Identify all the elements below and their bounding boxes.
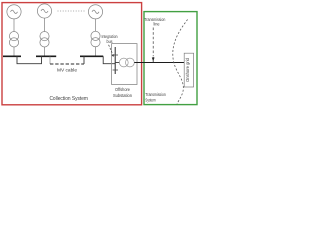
wire G1 to T1 xyxy=(13,19,15,32)
svg-text:MV cable: MV cable xyxy=(57,68,77,74)
export line to onshore xyxy=(134,62,184,64)
svg-text:System: System xyxy=(145,97,156,102)
transformer U1 (substation) xyxy=(119,58,134,67)
wire G2 to T2 xyxy=(44,18,46,32)
wire T2 to bus B xyxy=(44,47,46,56)
leader arrow to integration bus xyxy=(109,45,113,54)
transformer T3 xyxy=(91,31,100,47)
collection system boundary (red box) xyxy=(2,3,142,105)
leader arrow to transmission line xyxy=(152,28,154,57)
bus B xyxy=(36,55,56,57)
generator G2 xyxy=(37,4,51,18)
shore line (dashed coast) xyxy=(173,20,188,105)
ellipsis dotted line between G2 and G3 xyxy=(58,10,87,12)
svg-text:Collection System: Collection System xyxy=(49,96,88,102)
onshore grid box xyxy=(184,53,193,87)
svg-text:bus: bus xyxy=(107,39,113,44)
integration bus (vertical) xyxy=(114,47,116,74)
transmission system boundary (green box) xyxy=(144,12,197,105)
dashed MV cable link bus B to bus C xyxy=(50,63,84,65)
svg-text:line: line xyxy=(154,21,161,26)
transformer T1 xyxy=(9,31,18,47)
svg-text:Offshore: Offshore xyxy=(115,87,130,93)
bus C xyxy=(80,55,103,57)
offshore substation box xyxy=(112,44,137,85)
wire T3 to bus C xyxy=(95,47,97,56)
wire rise to bus C xyxy=(83,56,85,64)
wire T1 to bus A xyxy=(13,47,15,56)
bus A xyxy=(3,55,21,57)
svg-text:Substation: Substation xyxy=(113,93,132,99)
wire bus to transformer U1 xyxy=(115,62,119,64)
generator G1 xyxy=(7,5,21,19)
wire G3 to T3 xyxy=(95,19,97,32)
generator G3 xyxy=(88,5,102,19)
wire drop from bus B xyxy=(49,56,51,64)
wire bus C to substation xyxy=(103,56,115,63)
wire link bus A to bus B xyxy=(17,56,42,63)
svg-text:Onshore grid: Onshore grid xyxy=(185,57,190,82)
feeder tick 1 xyxy=(113,54,118,56)
transformer T2 xyxy=(40,31,49,47)
feeder tick 2 xyxy=(113,69,118,71)
